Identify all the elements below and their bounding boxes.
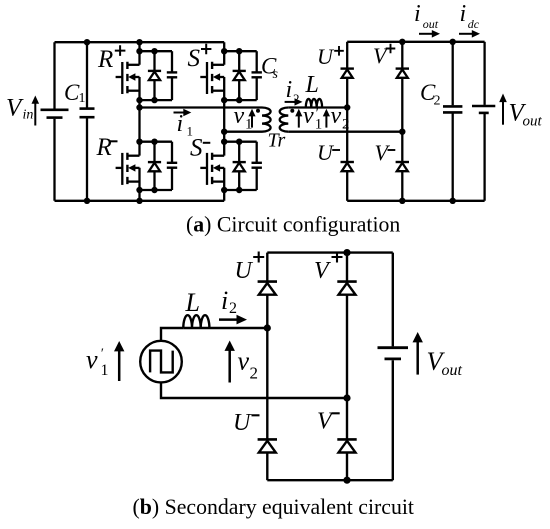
arrows circuit a <box>32 30 507 128</box>
svg-text:i: i <box>177 111 184 137</box>
label v1 <box>234 103 253 133</box>
transistor S+ mosfet <box>200 62 224 94</box>
node top rail / C1 <box>84 39 90 45</box>
label i2 b <box>221 286 237 317</box>
label U+ <box>317 44 344 69</box>
svg-text:s: s <box>273 67 279 82</box>
node top rail / R leg <box>136 39 142 45</box>
label i_dc <box>460 1 480 31</box>
arrow v2 up <box>323 109 330 128</box>
label i1 <box>177 111 194 139</box>
svg-text:v: v <box>86 345 98 374</box>
arrows circuit b <box>114 315 423 383</box>
node S- cell top <box>221 139 227 145</box>
node rectifier top rail / C2 <box>450 39 456 45</box>
caption (b) Secondary equivalent circuit <box>133 495 414 519</box>
diode U+ circuit b <box>258 253 277 440</box>
transistor R+ mosfet <box>116 62 140 94</box>
label v1prime b <box>86 345 109 379</box>
label L <box>305 72 319 98</box>
arrow v2 up b <box>225 341 235 383</box>
wire S leg <box>223 42 225 201</box>
svg-text:2: 2 <box>293 91 300 106</box>
labels circuit b <box>86 252 463 437</box>
caption (a) Circuit configuration <box>186 213 400 237</box>
arrow v1prime up b <box>114 341 124 381</box>
label Vin <box>6 95 33 123</box>
wire bottom rail primary side <box>55 200 225 202</box>
wire rectifier top rail <box>347 41 484 43</box>
svg-text:i: i <box>286 77 293 103</box>
svg-text:2: 2 <box>229 300 237 317</box>
label S- <box>190 135 210 162</box>
node rectifier bottom rail / V leg <box>399 198 405 204</box>
node R- cell bottom <box>136 187 142 193</box>
svg-text:in: in <box>23 108 34 123</box>
svg-text:(b) Secondary equivalent circu: (b) Secondary equivalent circuit <box>133 495 414 519</box>
label R- <box>96 134 118 161</box>
svg-text:U: U <box>233 410 252 436</box>
label i2 <box>286 77 300 106</box>
svg-text:1: 1 <box>187 124 194 139</box>
wire bridge bottom rail b <box>267 479 393 481</box>
diode + capacitor snubber branch of S+ (Cs) <box>224 51 262 100</box>
svg-text:U: U <box>317 140 335 165</box>
svg-text:S: S <box>190 135 203 162</box>
diode + capacitor snubber branch of R- <box>140 142 178 190</box>
node bottom rail / R leg <box>136 198 142 204</box>
arrow i_out right <box>419 30 440 38</box>
svg-text:V: V <box>314 258 331 284</box>
node S- cell bottom <box>221 187 227 193</box>
arrow v1 up <box>248 109 255 128</box>
diode V+ <box>396 42 409 162</box>
label Vout circuit a <box>509 100 543 130</box>
wire rectifier bottom rail <box>347 200 484 202</box>
label V- <box>375 140 396 165</box>
capacitor C1 <box>80 42 95 201</box>
node L to U leg <box>264 324 271 331</box>
svg-text:(a) Circuit configuration: (a) Circuit configuration <box>186 213 400 237</box>
svg-text:1: 1 <box>245 117 253 133</box>
arrow Vout up b <box>413 332 423 375</box>
diode U- <box>341 162 354 201</box>
node source return / V leg <box>343 394 350 401</box>
arrow Vin up <box>32 96 40 126</box>
transformer Tr secondary winding <box>280 108 289 132</box>
battery Vout of circuit a <box>472 42 495 201</box>
battery Vin <box>41 42 69 201</box>
node bottom rail / V leg <box>343 477 350 484</box>
wire mid rail i1 from R leg to transformer primary <box>140 106 263 108</box>
transistor R- mosfet <box>116 153 140 185</box>
svg-text:1: 1 <box>101 362 109 379</box>
junction dots circuit a <box>84 39 456 204</box>
label L b <box>185 288 200 317</box>
inductor L circuit b <box>183 315 209 328</box>
label V+ <box>373 43 395 68</box>
node bottom rail / C1 <box>84 198 90 204</box>
node transformer primary polarity dot <box>256 109 260 113</box>
junction dots circuit b <box>264 249 351 484</box>
label U- <box>317 140 340 165</box>
svg-text:v: v <box>303 103 314 129</box>
diode V+ circuit b <box>337 253 356 440</box>
node rectifier top rail / V leg <box>399 39 405 45</box>
svg-text:v: v <box>331 103 342 129</box>
arrow i2 right <box>285 98 303 105</box>
svg-text:out: out <box>423 17 439 31</box>
svg-text:V: V <box>317 409 334 435</box>
node R- cell top <box>136 139 142 145</box>
node secondary bottom to V leg <box>399 129 405 135</box>
svg-text:L: L <box>305 72 319 98</box>
svg-text:out: out <box>442 362 463 379</box>
svg-text:i: i <box>460 1 467 27</box>
arrow i2 right b <box>219 315 247 325</box>
battery Vout circuit b <box>378 253 409 481</box>
arrow i_dc right <box>459 30 480 38</box>
label R+ <box>97 45 125 73</box>
node R+ cell top <box>136 48 142 54</box>
svg-text:i: i <box>221 286 228 315</box>
label V+ b <box>314 252 343 285</box>
node top rail / V leg <box>343 249 350 256</box>
transistor S- mosfet <box>200 153 224 185</box>
wire top rail primary side <box>55 41 225 43</box>
svg-text:S: S <box>188 45 201 72</box>
svg-text:v: v <box>238 346 250 375</box>
arrow i1 right <box>174 109 192 116</box>
label i_out <box>414 1 439 31</box>
diode U+ <box>341 42 354 162</box>
svg-text:2: 2 <box>434 94 441 109</box>
capacitor C2 <box>443 42 462 201</box>
label V- b <box>317 409 340 435</box>
labels circuit a <box>6 1 543 165</box>
node S+ cell top <box>221 48 227 54</box>
label v1prime <box>303 103 322 133</box>
label U- b <box>233 410 260 436</box>
label U+ b <box>235 252 265 285</box>
diode V- <box>396 162 409 201</box>
node R mid rail junction <box>136 104 142 110</box>
arrow v1prime up <box>295 109 302 128</box>
label S+ <box>188 44 212 72</box>
label C2 <box>420 80 441 109</box>
svg-text:L: L <box>185 288 200 317</box>
wire primary bottom lead from S leg to transformer <box>224 131 262 133</box>
wire source bottom lead to V leg <box>161 382 347 398</box>
transformer Tr primary winding <box>262 108 271 132</box>
node S+ cell bottom <box>221 97 227 103</box>
svg-text:i: i <box>414 1 421 27</box>
label C1 <box>64 80 86 106</box>
wire bridge top rail b <box>267 251 393 253</box>
wire R leg <box>138 42 140 201</box>
wire secondary bottom lead to V leg <box>288 131 402 133</box>
svg-text:v: v <box>234 103 245 129</box>
svg-text:2: 2 <box>250 364 259 383</box>
node R+ cell bottom <box>136 97 142 103</box>
label v2 <box>331 103 350 133</box>
diode U- circuit b <box>258 439 277 480</box>
wire secondary top lead with inductor L <box>288 99 347 108</box>
wire source top lead to L node <box>161 328 183 341</box>
label v2 b <box>238 346 259 382</box>
source v1prime square-wave <box>140 341 182 383</box>
node S primary bottom junction <box>221 129 227 135</box>
svg-text:Tr: Tr <box>268 130 286 152</box>
label Vout b <box>427 347 463 379</box>
wire L to U leg node <box>183 327 267 329</box>
svg-text:U: U <box>317 44 335 69</box>
svg-text:U: U <box>235 258 254 284</box>
arrow Vout up <box>499 94 507 125</box>
svg-text:out: out <box>523 114 543 130</box>
node L to U leg <box>344 104 350 110</box>
diode + capacitor snubber branch of S- <box>224 142 262 190</box>
label Cs <box>261 54 279 83</box>
svg-text:R: R <box>97 46 113 73</box>
diode V- circuit b <box>337 439 356 480</box>
svg-text:dc: dc <box>468 17 480 31</box>
svg-text:1: 1 <box>315 117 323 133</box>
diode + capacitor snubber branch of R+ <box>140 51 178 100</box>
svg-text:1: 1 <box>79 91 86 106</box>
node rectifier bottom rail / C2 <box>450 198 456 204</box>
svg-text:2: 2 <box>342 117 350 133</box>
svg-text:R: R <box>96 134 112 161</box>
label Tr <box>268 130 286 152</box>
node transformer secondary polarity dot <box>290 109 294 113</box>
